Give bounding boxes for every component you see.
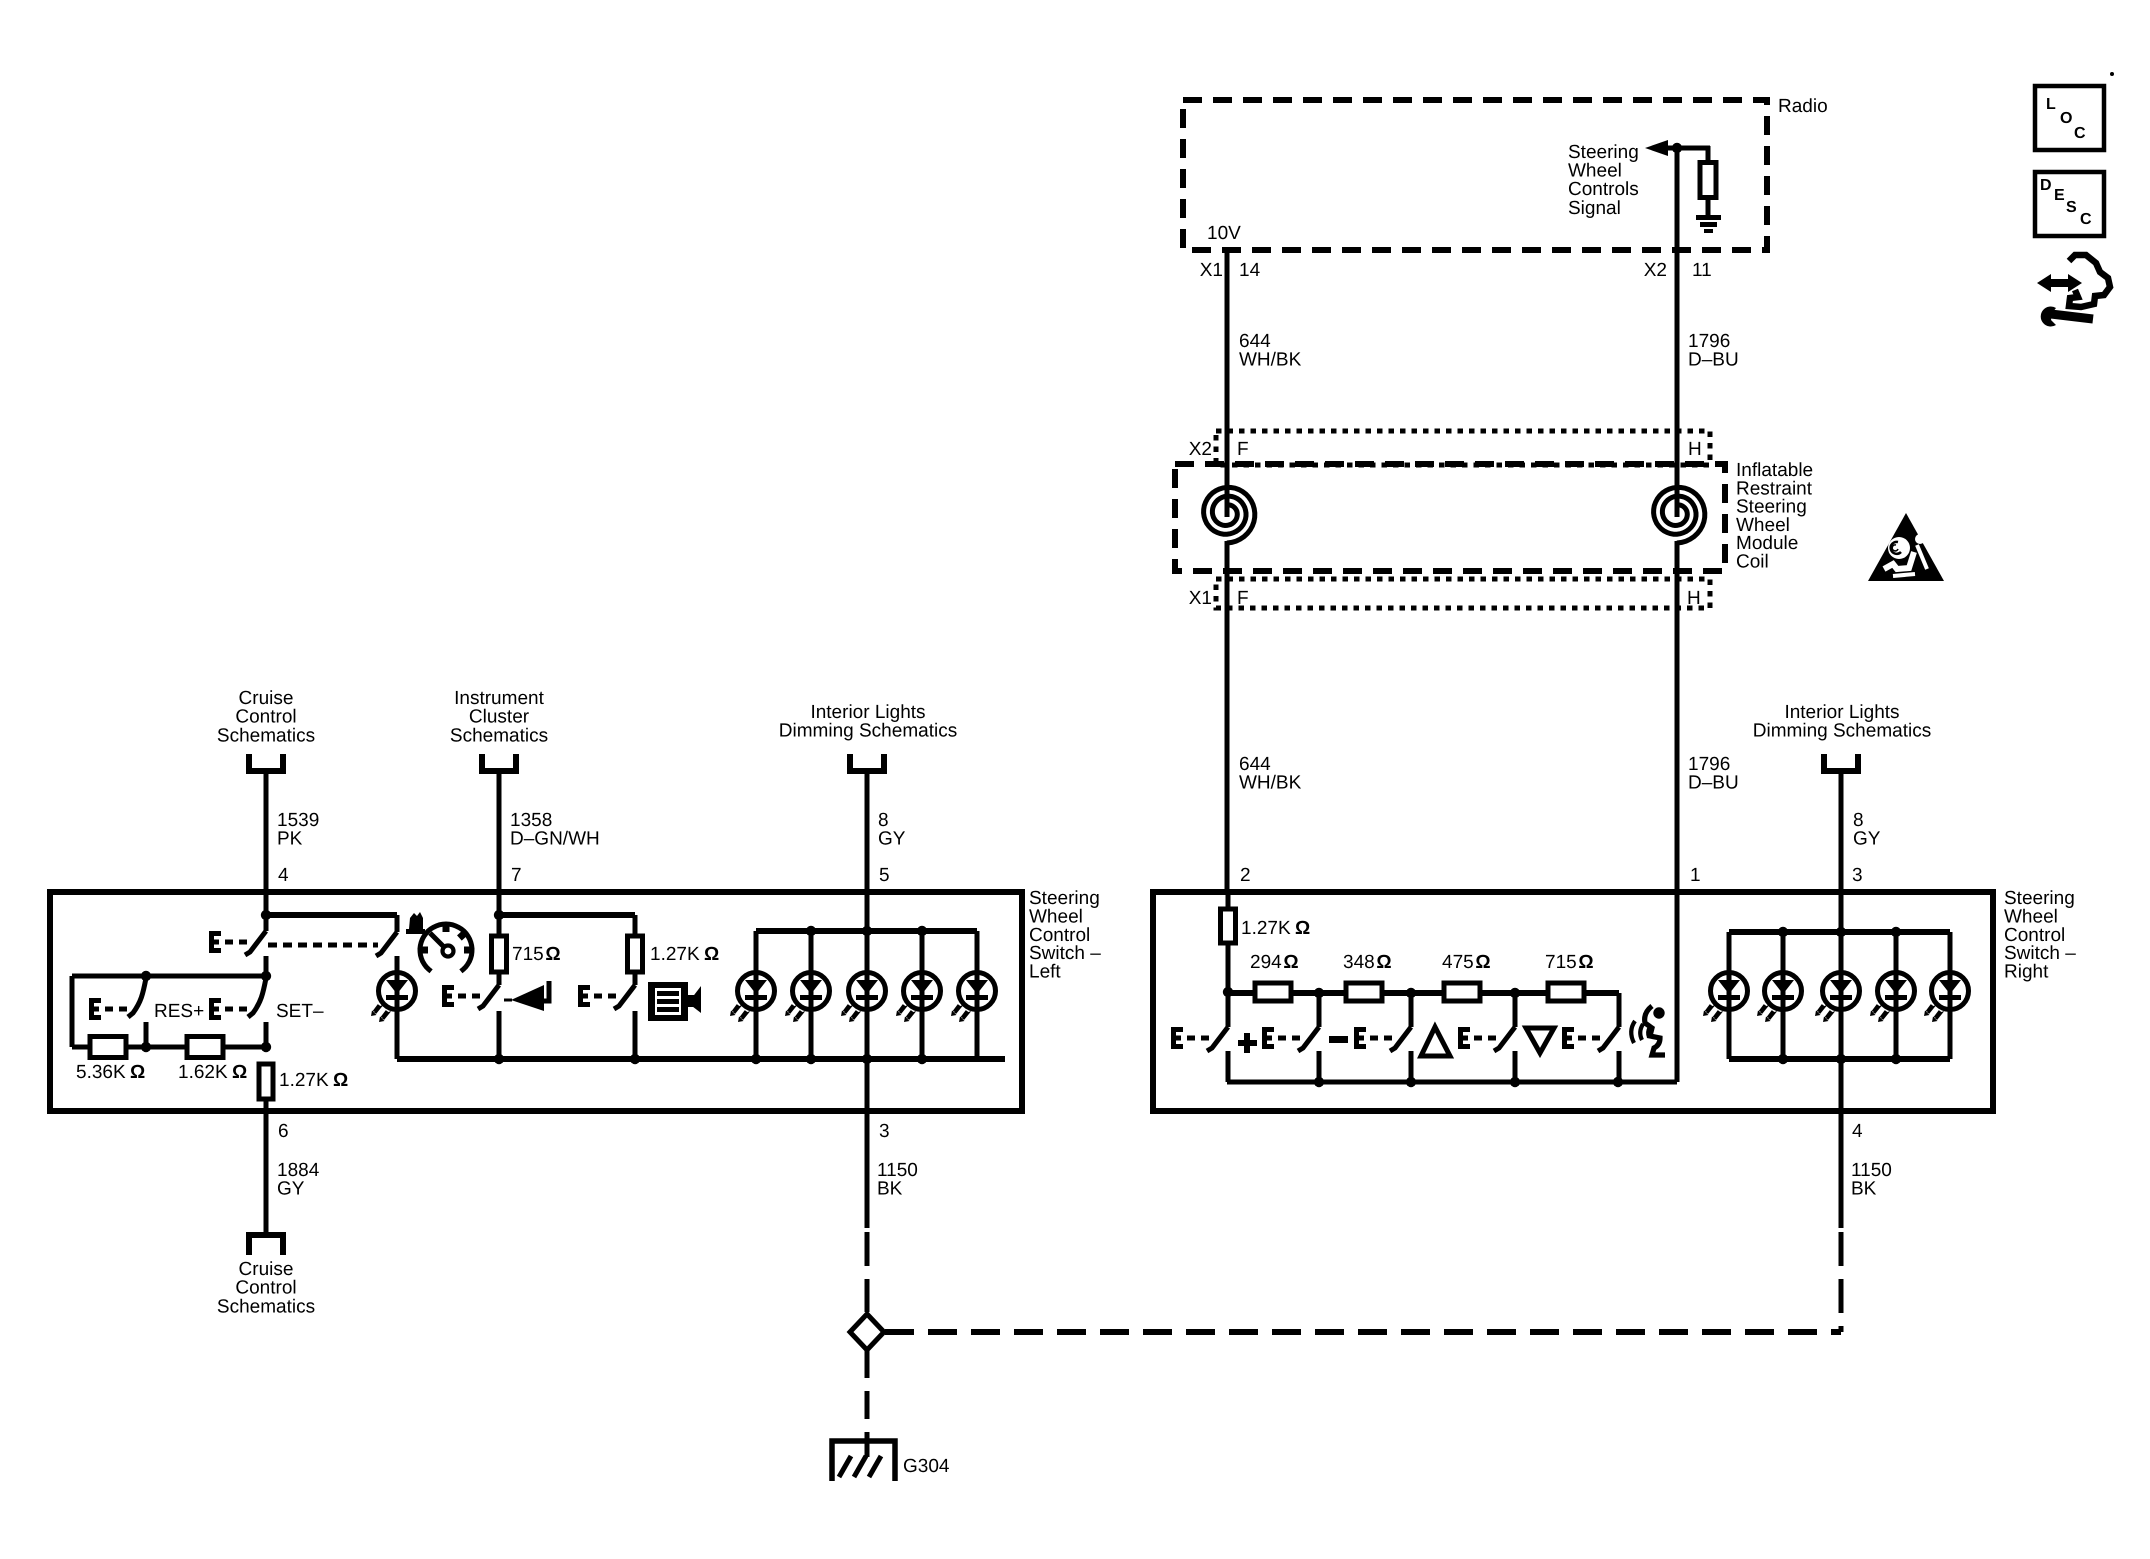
svg-text:Schematics: Schematics bbox=[217, 725, 315, 746]
svg-text:Left: Left bbox=[1029, 962, 1061, 983]
svg-text:1: 1 bbox=[1690, 865, 1701, 886]
svg-text:14: 14 bbox=[1239, 260, 1261, 281]
svg-text:C: C bbox=[2080, 211, 2092, 228]
svg-text:BK: BK bbox=[877, 1179, 903, 1200]
svg-text:G304: G304 bbox=[903, 1456, 950, 1477]
svg-text:715: 715 bbox=[1545, 952, 1577, 973]
svg-text:Radio: Radio bbox=[1778, 96, 1828, 117]
svg-text:3: 3 bbox=[1852, 865, 1863, 886]
svg-text:F: F bbox=[1237, 588, 1249, 609]
svg-text:Ω: Ω bbox=[232, 1062, 247, 1083]
svg-text:F: F bbox=[1237, 439, 1249, 460]
svg-text:C: C bbox=[2074, 125, 2086, 142]
svg-text:715: 715 bbox=[512, 944, 544, 965]
svg-text:GY: GY bbox=[277, 1179, 305, 1200]
svg-text:Dimming Schematics: Dimming Schematics bbox=[779, 721, 957, 742]
svg-text:1.27K: 1.27K bbox=[279, 1070, 329, 1091]
svg-text:1.27K: 1.27K bbox=[650, 944, 700, 965]
svg-text:Ω: Ω bbox=[1376, 952, 1391, 973]
svg-text:D–BU: D–BU bbox=[1688, 773, 1739, 794]
svg-text:10V: 10V bbox=[1207, 223, 1241, 244]
svg-text:Ω: Ω bbox=[1475, 952, 1490, 973]
svg-text:4: 4 bbox=[1852, 1121, 1863, 1142]
svg-text:11: 11 bbox=[1692, 260, 1712, 281]
svg-text:2: 2 bbox=[1240, 865, 1251, 886]
svg-text:H: H bbox=[1687, 588, 1701, 609]
svg-text:Ω: Ω bbox=[704, 944, 719, 965]
svg-text:WH/BK: WH/BK bbox=[1239, 350, 1302, 371]
svg-text:D: D bbox=[2040, 177, 2052, 194]
svg-text:1.27K: 1.27K bbox=[1241, 918, 1291, 939]
svg-text:4: 4 bbox=[278, 865, 289, 886]
svg-text:SET–: SET– bbox=[276, 1001, 324, 1022]
svg-text:X2: X2 bbox=[1644, 260, 1667, 281]
svg-text:475: 475 bbox=[1442, 952, 1474, 973]
svg-text:7: 7 bbox=[511, 865, 522, 886]
svg-text:X2: X2 bbox=[1189, 439, 1212, 460]
svg-text:Ω: Ω bbox=[1295, 918, 1310, 939]
svg-text:Ω: Ω bbox=[545, 944, 560, 965]
svg-text:5.36K: 5.36K bbox=[76, 1062, 126, 1083]
svg-text:PK: PK bbox=[277, 829, 303, 850]
svg-text:D–GN/WH: D–GN/WH bbox=[510, 829, 600, 850]
svg-text:6: 6 bbox=[278, 1121, 289, 1142]
svg-text:GY: GY bbox=[878, 829, 906, 850]
svg-text:BK: BK bbox=[1851, 1179, 1877, 1200]
svg-text:5: 5 bbox=[879, 865, 890, 886]
svg-text:GY: GY bbox=[1853, 829, 1881, 850]
svg-text:X1: X1 bbox=[1200, 260, 1223, 281]
svg-text:Ω: Ω bbox=[1578, 952, 1593, 973]
svg-text:Ω: Ω bbox=[333, 1070, 348, 1091]
svg-text:Coil: Coil bbox=[1736, 552, 1769, 573]
svg-text:Right: Right bbox=[2004, 962, 2049, 983]
svg-text:WH/BK: WH/BK bbox=[1239, 773, 1302, 794]
svg-text:S: S bbox=[2066, 199, 2077, 216]
svg-text:D–BU: D–BU bbox=[1688, 350, 1739, 371]
svg-text:1.62K: 1.62K bbox=[178, 1062, 228, 1083]
svg-text:X1: X1 bbox=[1189, 588, 1212, 609]
svg-text:3: 3 bbox=[879, 1121, 890, 1142]
svg-text:Ω: Ω bbox=[130, 1062, 145, 1083]
svg-text:E: E bbox=[2054, 187, 2065, 204]
svg-text:Dimming Schematics: Dimming Schematics bbox=[1753, 721, 1931, 742]
svg-text:Schematics: Schematics bbox=[450, 725, 548, 746]
svg-text:Signal: Signal bbox=[1568, 198, 1621, 219]
svg-text:O: O bbox=[2060, 110, 2072, 127]
svg-text:348: 348 bbox=[1343, 952, 1375, 973]
svg-text:RES+: RES+ bbox=[154, 1001, 204, 1022]
svg-text:Schematics: Schematics bbox=[217, 1296, 315, 1317]
svg-text:Ω: Ω bbox=[1283, 952, 1298, 973]
svg-text:L: L bbox=[2046, 96, 2056, 113]
svg-text:294: 294 bbox=[1250, 952, 1282, 973]
svg-text:H: H bbox=[1688, 439, 1702, 460]
